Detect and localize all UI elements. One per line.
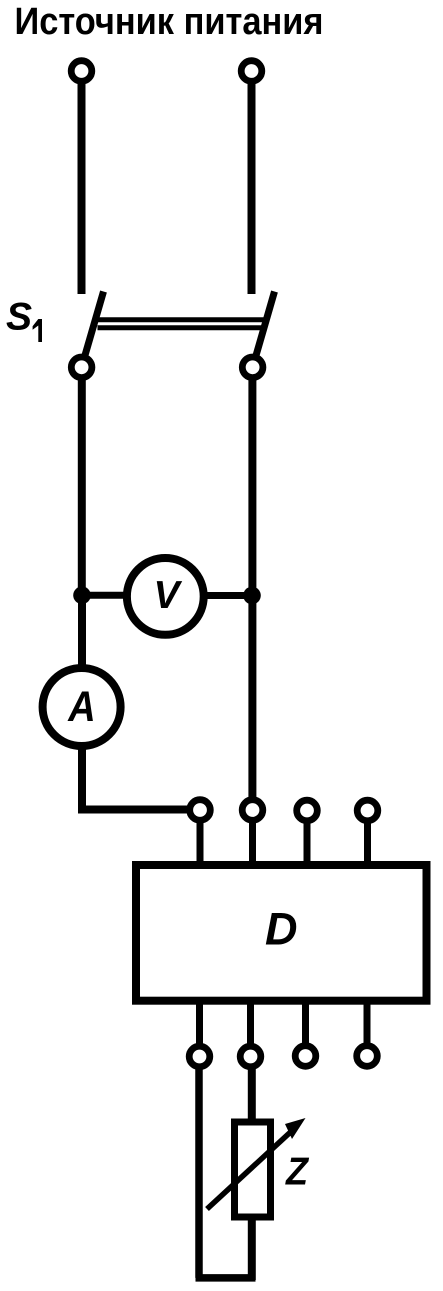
wire bottom terminal 1 down and across (195, 1064, 203, 1278)
ammeter A circle (43, 668, 121, 746)
stub D bottom terminal 4 (364, 1000, 371, 1048)
variable impedance arrow shaft (207, 1127, 296, 1209)
wire from right top terminal down to switch (248, 80, 256, 294)
stub D top terminal 4 (364, 818, 371, 866)
wire horizontal to D terminal 1 (78, 806, 192, 814)
wire from left top terminal down to switch (78, 80, 86, 294)
svg-text:Источник питания: Источник питания (15, 1, 324, 43)
terminal D bottom 4 (357, 1046, 378, 1067)
wire junction-left down to ammeter (78, 595, 86, 670)
switch S1 left pivot contact (71, 357, 92, 378)
stub D top terminal 3 (304, 818, 311, 866)
wire below left pivot down to junction (78, 372, 86, 599)
svg-text:V: V (154, 574, 183, 617)
node junction left (73, 587, 91, 605)
switch S1 left blade (82, 292, 104, 368)
variable impedance arrow head (285, 1118, 306, 1139)
terminal D top 2 (242, 800, 263, 821)
switch S1 right blade (253, 292, 275, 368)
stub D bottom terminal 1 (196, 1000, 203, 1048)
svg-text:S: S (6, 296, 32, 339)
terminal D top 3 (297, 800, 318, 821)
terminal D bottom 2 (240, 1046, 261, 1067)
svg-text:D: D (265, 904, 298, 955)
wire below Z down to bottom wire (248, 1217, 256, 1280)
svg-text:Z: Z (285, 1151, 310, 1194)
wire below right pivot down to top terminal 2 of D (248, 372, 256, 802)
wire voltmeter to junction-right (200, 592, 252, 599)
switch S1 right pivot contact (242, 357, 263, 378)
wire bottom terminal 2 down to Z (248, 1064, 256, 1122)
terminal D bottom 3 (295, 1046, 316, 1067)
terminal D top 1 (190, 800, 211, 821)
stub D top terminal 2 (249, 818, 256, 866)
switch S1 linkage (double bar) (98, 317, 266, 322)
node junction right (243, 587, 261, 605)
variable impedance Z box (235, 1122, 271, 1217)
wire junction-left to voltmeter (82, 592, 132, 599)
terminal D bottom 1 (189, 1046, 210, 1067)
stub D bottom terminal 3 (302, 1000, 309, 1048)
stub D bottom terminal 2 (247, 1000, 254, 1048)
voltmeter V circle (127, 558, 204, 635)
wire ammeter down (78, 746, 86, 810)
terminal top-left (71, 61, 92, 82)
svg-text:A: A (67, 683, 95, 731)
stub D top terminal 1 (197, 818, 204, 866)
terminal top-right (241, 61, 262, 82)
device D box (136, 865, 427, 1001)
terminal D top 4 (357, 800, 378, 821)
